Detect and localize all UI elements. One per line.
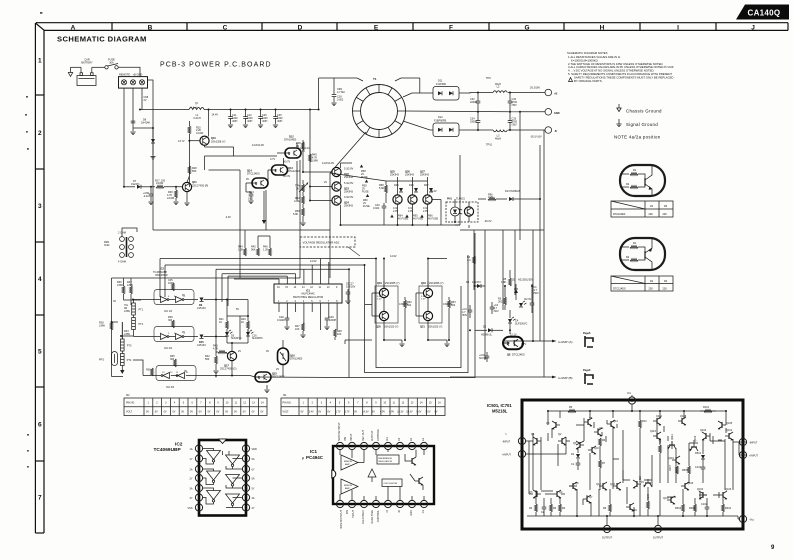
svg-text:L/16W: L/16W xyxy=(167,197,175,200)
capacitor C10 xyxy=(479,352,489,362)
svg-text:22K: 22K xyxy=(663,288,668,291)
svg-text:/40H: /40H xyxy=(262,120,267,123)
IC1 internal pwm comparator xyxy=(368,469,376,482)
svg-text:4.9V: 4.9V xyxy=(380,410,385,413)
svg-text:PIN NO.: PIN NO. xyxy=(283,402,292,405)
svg-text:15: 15 xyxy=(350,445,354,449)
svg-text:R109: R109 xyxy=(647,493,650,500)
resistor R42 xyxy=(205,352,219,374)
svg-text:ERROR: ERROR xyxy=(344,461,352,463)
svg-text:T1: T1 xyxy=(373,77,377,81)
transistor Q101 xyxy=(725,429,733,440)
voltage regulator adj box xyxy=(300,237,360,256)
svg-text:F1JP90F: F1JP90F xyxy=(436,83,447,86)
svg-text:IC2: IC2 xyxy=(175,442,183,448)
resistor R49 xyxy=(309,154,319,163)
IC1 pins top 16-9 xyxy=(336,442,427,449)
svg-text:Q11: Q11 xyxy=(599,427,604,430)
transistor Q104 xyxy=(697,488,707,499)
svg-text:12.1V: 12.1V xyxy=(510,334,517,337)
svg-text:1K: 1K xyxy=(296,188,299,191)
resistor R5 xyxy=(501,270,511,286)
svg-text:2SK943: 2SK943 xyxy=(390,174,400,177)
transistor Q107 xyxy=(663,496,675,504)
svg-text:0V: 0V xyxy=(252,410,255,413)
resistor R45 xyxy=(251,236,259,256)
svg-text:0V: 0V xyxy=(146,410,149,413)
svg-text:R302: R302 xyxy=(725,507,732,510)
svg-text:INPUT: INPUT xyxy=(350,433,353,441)
svg-text:5.3/2.8V: 5.3/2.8V xyxy=(344,168,354,171)
svg-text:DTA124ES: DTA124ES xyxy=(288,170,301,173)
svg-text:R101: R101 xyxy=(703,406,710,409)
svg-text:Q10: Q10 xyxy=(594,447,599,450)
svg-text:Rt: Rt xyxy=(398,510,401,513)
resistor R504 xyxy=(675,504,684,512)
svg-text:Q108: Q108 xyxy=(680,415,687,418)
svg-text:30A: 30A xyxy=(109,62,114,65)
svg-text:14.3V: 14.3V xyxy=(406,410,413,413)
svg-text:11: 11 xyxy=(244,477,247,481)
wire battery to fuse xyxy=(91,67,93,73)
extra internal wires M5218L xyxy=(529,418,722,516)
svg-text:INPUT: INPUT xyxy=(352,510,355,518)
svg-text:L/16W: L/16W xyxy=(196,132,204,135)
wires bridges to filter xyxy=(459,92,493,95)
digital transistor Q12 DTA104ES xyxy=(277,136,301,171)
wire control bundle xyxy=(153,128,376,306)
capacitor C1 xyxy=(530,284,539,313)
svg-text:/50V: /50V xyxy=(494,310,499,313)
svg-text:56K: 56K xyxy=(251,249,256,252)
transistor Q103 xyxy=(719,488,732,499)
svg-text:0V: 0V xyxy=(184,370,187,373)
wire terminal drops xyxy=(123,88,125,187)
svg-text:2.8V: 2.8V xyxy=(393,210,398,213)
svg-text:OUTPUT: OUTPUT xyxy=(371,430,374,441)
transistor Q8 xyxy=(569,482,579,490)
svg-text:DTC124ES: DTC124ES xyxy=(512,354,525,357)
svg-text:Q102: Q102 xyxy=(700,429,707,432)
transistor Q108 xyxy=(678,415,687,425)
svg-text:R504: R504 xyxy=(675,507,682,510)
svg-text:0V: 0V xyxy=(216,410,219,413)
svg-text:INVERTER: INVERTER xyxy=(155,274,168,277)
diode D2 H2096-2L xyxy=(475,326,503,337)
svg-text:NON INV INPUT: NON INV INPUT xyxy=(338,422,341,441)
capacitor C13 xyxy=(246,191,254,204)
svg-text:Q20: Q20 xyxy=(376,326,381,329)
svg-text:4A: 4A xyxy=(252,497,255,500)
resistor R9 xyxy=(603,504,611,512)
svg-text:D: D xyxy=(298,24,303,31)
svg-text:4Y: 4Y xyxy=(252,507,255,510)
svg-text:1: 1 xyxy=(38,58,42,65)
svg-text:/50V: /50V xyxy=(534,292,539,295)
wire fuse to terminal block xyxy=(118,67,140,76)
svg-text:Q101: Q101 xyxy=(726,429,733,432)
svg-text:10K: 10K xyxy=(295,328,300,331)
diode D13 H2099-B xyxy=(505,145,540,341)
transistor Q15 xyxy=(633,480,645,488)
transistor Q105 xyxy=(718,421,733,429)
svg-text:3/4Ω: 3/4Ω xyxy=(104,244,109,247)
svg-text:Q18: Q18 xyxy=(421,282,426,285)
svg-text:22K: 22K xyxy=(649,213,654,216)
terminal block REMOTE +B GND xyxy=(119,72,148,88)
svg-text:Q19: Q19 xyxy=(377,282,382,285)
transistor Q11 2SC1740S xyxy=(182,176,208,206)
svg-text:B: B xyxy=(148,24,153,31)
pin 8 Vcc xyxy=(627,392,636,404)
svg-text:0.002: 0.002 xyxy=(337,99,344,102)
potentiometer TPA 1K xyxy=(295,180,308,196)
transistor Q14 xyxy=(607,420,618,428)
svg-text:14.4V: 14.4V xyxy=(430,190,437,193)
resistor R46 xyxy=(263,236,271,256)
svg-text:L/8W: L/8W xyxy=(99,325,105,328)
svg-text:CONTROL: CONTROL xyxy=(377,428,380,441)
wire FET bank drains xyxy=(303,110,352,226)
svg-text:DTA104ES: DTA104ES xyxy=(284,139,297,142)
transistor Q113 xyxy=(650,430,661,440)
capacitor C33 4700/35V xyxy=(508,112,518,130)
svg-text:5.3/2.8V: 5.3/2.8V xyxy=(344,182,354,185)
svg-text:PFS: PFS xyxy=(99,359,104,362)
diode D4 1S2473 xyxy=(466,281,485,288)
svg-text:3: 3 xyxy=(38,203,42,210)
transistor Q16 xyxy=(626,503,637,512)
svg-text:R106: R106 xyxy=(659,437,662,444)
svg-text:F: F xyxy=(449,24,453,31)
svg-text:D26: D26 xyxy=(409,184,414,187)
svg-text:H: H xyxy=(600,24,605,31)
pin 3 +INPUT xyxy=(502,450,526,457)
svg-text:/40H: /40H xyxy=(247,120,252,123)
transistor Q9 xyxy=(573,441,584,449)
svg-text:5.0V: 5.0V xyxy=(416,410,421,413)
svg-text:Q103: Q103 xyxy=(725,488,732,491)
legend chassis ground xyxy=(617,104,662,114)
svg-text:14.4V: 14.4V xyxy=(212,114,219,117)
svg-text:Q112: Q112 xyxy=(639,475,642,482)
LED C4 SLP200VC xyxy=(508,310,528,334)
diode D6 LS5133 xyxy=(197,298,216,311)
svg-text:LS5133: LS5133 xyxy=(197,344,206,347)
coil PT3 xyxy=(121,336,132,351)
svg-text:INV: INV xyxy=(344,437,347,442)
schematic notes block xyxy=(567,51,674,83)
diode D501 xyxy=(695,452,705,459)
wire right of terminal loop xyxy=(133,80,153,128)
svg-text:4: 4 xyxy=(38,276,42,283)
svg-text:+B: +B xyxy=(554,93,557,96)
svg-text:2200P: 2200P xyxy=(470,101,478,104)
svg-text:/35V: /35V xyxy=(512,104,517,107)
frame left band xyxy=(35,23,44,533)
digital transistor Q16 DTA124ES xyxy=(276,340,303,371)
page6 flag A xyxy=(583,332,593,347)
svg-text:1K: 1K xyxy=(219,321,222,324)
svg-text:0V: 0V xyxy=(243,410,246,413)
terminal +B xyxy=(530,87,557,96)
svg-text:Q16: Q16 xyxy=(632,509,637,512)
svg-text:BY ORIGINAL PARTS.: BY ORIGINAL PARTS. xyxy=(574,79,603,83)
svg-text:0V: 0V xyxy=(190,410,193,413)
resistor R43 xyxy=(213,345,226,354)
transistor Q6 xyxy=(584,417,593,426)
svg-text:5V: 5V xyxy=(372,410,375,413)
svg-text:2.8V: 2.8V xyxy=(408,210,413,213)
pin 7 OUTPUT xyxy=(653,525,664,539)
svg-text:3A: 3A xyxy=(190,488,193,491)
svg-text:0/0.3V: 0/0.3V xyxy=(283,175,291,178)
svg-text:NON INV INPUT: NON INV INPUT xyxy=(340,510,343,529)
wire LED cathodes bus xyxy=(216,340,250,376)
inductor L3 46uH xyxy=(493,130,507,140)
pwm IC1 uPC494C chip xyxy=(302,446,434,504)
resistor R106 xyxy=(659,437,662,453)
resistor R28 xyxy=(99,322,113,331)
connector RM1 xyxy=(104,232,133,264)
transistor Q17 2SC1740S xyxy=(220,343,237,371)
wires input pair xyxy=(526,433,566,490)
resistor R38 xyxy=(167,187,179,205)
svg-text:2SA1020 (Y): 2SA1020 (Y) xyxy=(428,326,442,329)
svg-text:NOTE 4a/2a position: NOTE 4a/2a position xyxy=(614,135,661,140)
IC1 internal wires xyxy=(340,450,424,501)
svg-text:FEED BACK: FEED BACK xyxy=(362,510,365,525)
transistor Q109 xyxy=(690,435,698,451)
capacitor C18 xyxy=(333,78,335,94)
svg-text:14: 14 xyxy=(362,445,366,449)
svg-text:VDD: VDD xyxy=(252,448,257,451)
svg-text:DTA124ES: DTA124ES xyxy=(290,358,303,361)
svg-text:46uH: 46uH xyxy=(495,137,501,140)
svg-text:GND: GND xyxy=(554,112,560,115)
svg-text:1.7V: 1.7V xyxy=(336,410,341,413)
wire lower rails xyxy=(216,316,372,378)
wire T1 secondary taps to bridges xyxy=(403,93,420,97)
resistor R17 xyxy=(155,180,182,189)
resistor R36 R37 top of coils xyxy=(117,278,133,305)
power FET bank Q22-Q24 xyxy=(322,162,370,208)
svg-text:0V: 0V xyxy=(181,410,184,413)
svg-text:0V: 0V xyxy=(246,178,249,181)
resistor R48 top left xyxy=(296,142,304,150)
scattered voltage labels xyxy=(113,144,532,373)
svg-text:2SC2655 (Y): 2SC2655 (Y) xyxy=(385,282,400,285)
capacitor C101 xyxy=(695,466,705,469)
terminal -B xyxy=(530,127,557,139)
table I01 pin voltages xyxy=(281,394,445,416)
capacitor C3 xyxy=(462,305,472,318)
svg-text:H21392L/55V: H21392L/55V xyxy=(518,279,534,282)
svg-text:/35V: /35V xyxy=(512,124,517,127)
svg-text:REGULATOR: REGULATOR xyxy=(379,460,393,463)
svg-text:SC/35V: SC/35V xyxy=(479,357,488,360)
wire Q10 outputs xyxy=(205,170,241,230)
svg-text:-4.3V: -4.3V xyxy=(225,216,231,219)
svg-text:0V: 0V xyxy=(318,410,321,413)
DTC124ES table xyxy=(611,276,673,291)
svg-text:13: 13 xyxy=(244,457,248,461)
resistor R48 xyxy=(334,329,343,340)
svg-text:2SK943: 2SK943 xyxy=(344,205,354,208)
svg-text:L/8W: L/8W xyxy=(312,160,318,163)
transistor Q7 xyxy=(583,495,593,503)
svg-text:1S2471: 1S2471 xyxy=(131,183,140,186)
svg-text:Page6: Page6 xyxy=(583,369,591,372)
svg-text:-INPUT: -INPUT xyxy=(749,442,758,445)
svg-text:13.7V: 13.7V xyxy=(178,140,185,143)
transistor Q112 xyxy=(639,475,652,487)
svg-text:0.3mH: 0.3mH xyxy=(193,117,201,120)
resistor R36 xyxy=(146,368,153,376)
capacitor C102 xyxy=(701,503,709,509)
digital transistor Q14 DTC124ES xyxy=(246,170,268,225)
frame letter ticks xyxy=(112,23,788,31)
svg-text:6Y: 6Y xyxy=(252,469,255,472)
resistor R53 xyxy=(448,297,457,340)
svg-text:0.022: 0.022 xyxy=(373,207,380,210)
transistor Q110 xyxy=(668,456,680,464)
svg-text:L/8W: L/8W xyxy=(127,284,133,287)
svg-text:2V: 2V xyxy=(324,181,327,184)
power FET row Q25-Q27 xyxy=(330,171,460,226)
svg-text:R303: R303 xyxy=(689,507,696,510)
svg-text:TC4069UBP: TC4069UBP xyxy=(154,447,182,453)
svg-text:5.6K: 5.6K xyxy=(379,187,384,190)
svg-text:2.5V: 2.5V xyxy=(377,299,382,301)
IC1 bottom pin labels rotated xyxy=(340,509,425,528)
svg-text:0V: 0V xyxy=(234,410,237,413)
svg-text:4.7 6M: 4.7 6M xyxy=(337,91,345,94)
svg-text:14: 14 xyxy=(244,447,248,451)
svg-text:2SC1740S (G): 2SC1740S (G) xyxy=(220,368,237,371)
svg-text:10K: 10K xyxy=(337,333,342,336)
driver pair Q19 Q20 xyxy=(365,281,409,340)
svg-text:Q114: Q114 xyxy=(656,415,663,418)
wires to output terminals xyxy=(508,92,545,94)
svg-text:SWITCHING REGULATOR: SWITCHING REGULATOR xyxy=(293,296,324,299)
svg-text:100/16V: 100/16V xyxy=(346,286,356,289)
frame top band xyxy=(35,23,788,31)
svg-text:2.5V: 2.5V xyxy=(421,299,426,301)
transistor Q111 xyxy=(668,434,676,450)
svg-text:3Y: 3Y xyxy=(190,497,193,500)
svg-text:26.3/16V: 26.3/16V xyxy=(530,87,540,90)
svg-text:GND: GND xyxy=(410,510,413,516)
svg-text:2V: 2V xyxy=(276,368,279,371)
svg-text:LS5133: LS5133 xyxy=(197,307,206,310)
svg-text:FUSE: FUSE xyxy=(362,191,369,194)
svg-text:+INPUT: +INPUT xyxy=(749,455,758,458)
svg-text:R107: R107 xyxy=(669,464,672,471)
svg-text:1000P: 1000P xyxy=(329,319,337,322)
transistor Q5 xyxy=(546,421,560,429)
svg-text:11: 11 xyxy=(399,445,402,449)
svg-text:100P: 100P xyxy=(168,282,174,285)
right mid rails xyxy=(460,112,544,377)
table I02 pin voltages xyxy=(124,394,267,416)
svg-text:1.8K: 1.8K xyxy=(501,281,506,284)
diode D1 xyxy=(571,453,580,458)
svg-text:0/2.3V: 0/2.3V xyxy=(524,298,532,301)
capacitor C60 xyxy=(143,187,154,205)
svg-text:6: 6 xyxy=(38,422,42,429)
svg-text:1K: 1K xyxy=(241,321,244,324)
svg-text:PT3: PT3 xyxy=(127,345,132,348)
wire RM1 to top xyxy=(122,228,137,237)
resistor R107 xyxy=(669,464,678,474)
svg-text:I01: I01 xyxy=(283,394,287,397)
svg-text:BATTERY: BATTERY xyxy=(81,62,93,65)
IC1 top pin labels rotated xyxy=(338,422,425,441)
svg-text:Q111: Q111 xyxy=(671,434,674,440)
svg-text:0V: 0V xyxy=(435,410,438,413)
pin 1 OUTPUT xyxy=(602,525,613,539)
wire inverter outputs to mid xyxy=(216,300,248,353)
svg-text:0/0.7V: 0/0.7V xyxy=(283,161,291,164)
resistor R50 xyxy=(293,208,306,226)
title tab CA140Q xyxy=(736,5,789,20)
svg-text:C101: C101 xyxy=(695,466,702,469)
svg-text:REF OUT: REF OUT xyxy=(362,430,365,441)
svg-text:0.3/2.8V: 0.3/2.8V xyxy=(344,196,354,199)
svg-text:R10: R10 xyxy=(642,420,647,423)
svg-text:PH1: PH1 xyxy=(447,198,452,201)
svg-text:0V: 0V xyxy=(199,410,202,413)
svg-text:VOLT.: VOLT. xyxy=(283,410,290,413)
capacitor C30 4700/35V xyxy=(508,93,518,112)
pin 4 -Vcc xyxy=(739,515,754,522)
svg-text:5V: 5V xyxy=(155,410,158,413)
svg-text:M5218L: M5218L xyxy=(492,409,508,414)
wire PH1 row xyxy=(455,199,486,228)
resistor R52 xyxy=(404,297,413,340)
svg-text:DEAD TIME: DEAD TIME xyxy=(371,510,374,524)
svg-text:14.9V: 14.9V xyxy=(390,255,397,258)
inductor L2 46uH xyxy=(493,83,507,93)
svg-text:2.8V: 2.8V xyxy=(423,210,428,213)
IC1 internal oscillator xyxy=(382,479,402,487)
svg-text:Q21: Q21 xyxy=(420,326,425,329)
pin 6 -INPUT xyxy=(739,438,757,445)
terminal GND xyxy=(545,109,560,116)
svg-text:14.3V: 14.3V xyxy=(362,410,369,413)
svg-text:L/16W: L/16W xyxy=(156,182,164,185)
op-amp IC501 IC701 M5218L box xyxy=(487,400,743,529)
main +B bus xyxy=(140,109,189,111)
svg-text:PT1: PT1 xyxy=(139,309,144,312)
svg-text:CONTROL: CONTROL xyxy=(377,509,380,522)
svg-text:Q105: Q105 xyxy=(726,422,733,425)
svg-text:FUSE: FUSE xyxy=(363,205,370,208)
svg-text:0V: 0V xyxy=(354,410,357,413)
wire T1 bottom lead xyxy=(330,132,366,173)
svg-text:14.8/14.9V: 14.8/14.9V xyxy=(322,162,334,165)
svg-text:2SK943: 2SK943 xyxy=(344,191,354,194)
switching regulator IC1 box xyxy=(274,284,342,330)
svg-text:2K2: 2K2 xyxy=(498,301,503,304)
bottom mirror Q3 Q4 xyxy=(529,490,541,498)
transformer T1 toroid xyxy=(353,77,406,138)
driver pair Q18 Q21 xyxy=(416,281,453,340)
svg-text:IC1: IC1 xyxy=(310,449,318,454)
IC2 pins left 1-7 xyxy=(188,445,203,511)
optocoupler PH1 TLP631 xyxy=(446,198,478,223)
